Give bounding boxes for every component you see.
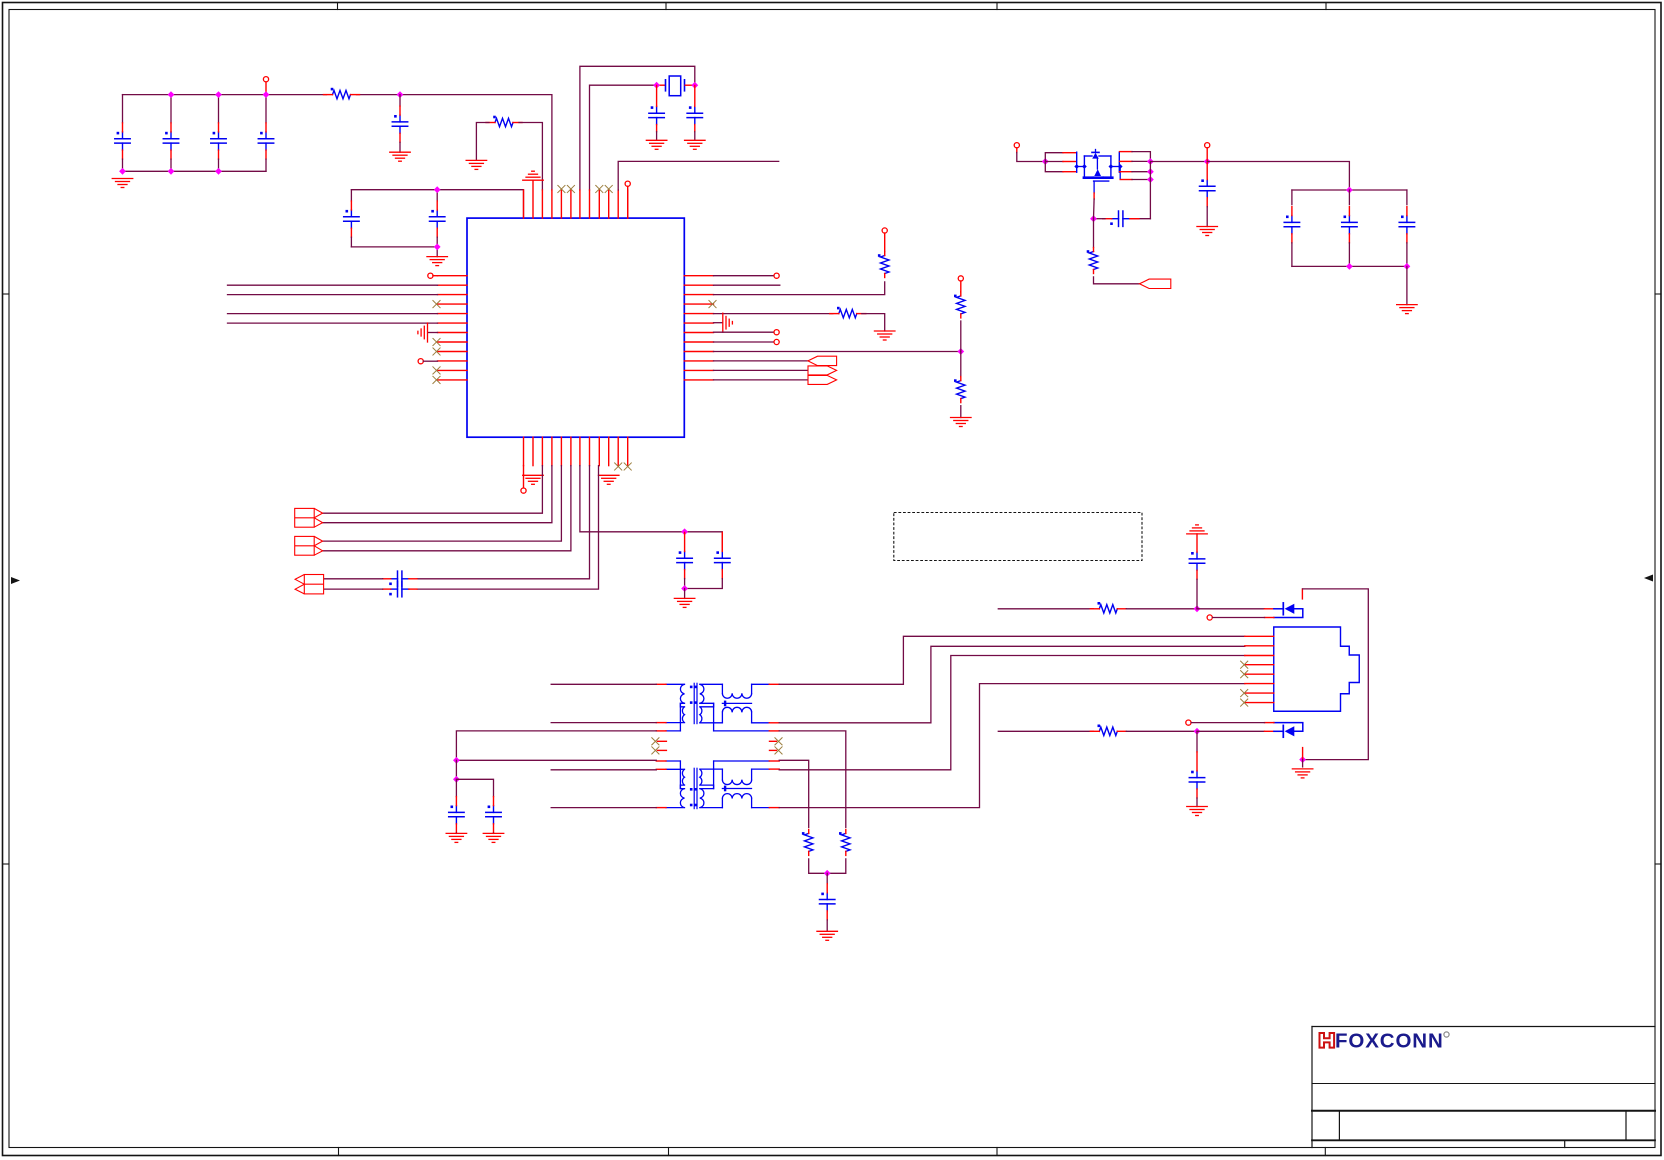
wire P11 to Q1 [1017, 153, 1046, 162]
junction T2 tap [453, 757, 460, 764]
no-connect X left pins 11-12 [433, 367, 440, 384]
capacitor C3 [211, 95, 226, 172]
wire R10 to diode D2 [1197, 730, 1265, 732]
connector J1 pins [1245, 636, 1274, 702]
junction tap node [824, 870, 831, 877]
no-connect J1 pins 4-5 [1241, 661, 1248, 678]
wire pin7-b to caps [580, 466, 685, 532]
transformer T2 [656, 761, 779, 809]
resistor R1 [324, 88, 360, 99]
wire loop bottom [351, 247, 437, 257]
wire bus left A [228, 284, 438, 286]
wire pin8-b row [417, 466, 589, 579]
no-connect X right pin4 [709, 301, 716, 308]
IC U1 bottom pins [524, 437, 628, 465]
ground GND3 [466, 160, 487, 169]
wire pin5-b to tag [323, 466, 562, 541]
capacitor C10 [677, 532, 692, 588]
IC U1 top pins [524, 181, 628, 218]
ground GND16 [483, 833, 504, 842]
wire r10 to port [714, 369, 809, 371]
wire T1-B out [779, 646, 1245, 723]
ground GND15 [446, 833, 467, 842]
wire r2 to R3 [714, 282, 885, 295]
resistor R7 [839, 829, 850, 855]
wire pin11 to net stub [618, 161, 779, 190]
dashed note box [894, 513, 1142, 561]
capacitor C2 [163, 95, 178, 172]
wire bus left D [228, 322, 438, 324]
ferrite bead FB1 left pair [1045, 152, 1076, 172]
IC U1 [467, 218, 684, 437]
capacitor C21 [1284, 190, 1299, 266]
junction dots bus [119, 91, 403, 175]
wire to GND14 [684, 589, 686, 599]
port tag PORT4 (dual right) [295, 508, 323, 527]
port tag PORT1 (left-pointing) [808, 356, 837, 365]
wire D2 node link [0, 0, 1, 1]
no-connect J1 pins 7-8 [1241, 690, 1248, 707]
no-connect X pins 5-6 top [558, 185, 575, 192]
wire Q1 gate down [1093, 193, 1096, 219]
ground GND20 [1197, 227, 1218, 236]
wire r7 to pin P8 [714, 339, 780, 344]
capacitor C17 chain [1187, 525, 1208, 609]
wire cap bank bottom bus [1292, 265, 1407, 267]
wire tag3 wires [324, 579, 383, 589]
ground GND19 [1187, 807, 1208, 816]
junction Q1 in [1042, 158, 1049, 165]
no-connect X pins 11-12 bottom [615, 463, 632, 470]
capacitor C4 [258, 95, 273, 172]
wire pin9-b row [417, 466, 598, 589]
port tag PORT7 [1140, 279, 1171, 288]
wire chassis rail [1303, 589, 1369, 760]
wire RXVDD row [998, 608, 1093, 610]
IC U1 right pins [684, 276, 713, 380]
resistor R5 pullup [954, 276, 965, 352]
resistor R4 [830, 307, 866, 318]
wire r0 to pin P6 [714, 273, 780, 278]
capacitor C8 [344, 190, 359, 247]
junction loop top [434, 186, 441, 193]
wire r9 to port [714, 360, 808, 362]
svg-text:FOXCONN: FOXCONN [1335, 1029, 1443, 1052]
capacitor C7 [687, 85, 702, 140]
wire rail to gate cap [1131, 218, 1150, 220]
junction cap pair top [681, 528, 688, 535]
port tag PORT5 (dual right) [295, 536, 323, 555]
wire T1-B input [551, 722, 656, 724]
pin stub above rail junction [1302, 748, 1304, 760]
capacitor C5 [392, 95, 407, 153]
ground GND9 below pin10-b [598, 475, 619, 484]
wire R9 to diode D1 [1197, 608, 1265, 610]
junction crystal right [691, 82, 698, 89]
wire T1-A input [551, 683, 656, 685]
wire r8 to divider [714, 351, 961, 353]
junction crystal left [653, 82, 660, 89]
ground GND13 [951, 418, 972, 427]
wire pin7 route [580, 66, 695, 190]
wire D1 node link [1301, 589, 1303, 599]
wire T1-A out [779, 636, 1245, 684]
capacitor C15 [456, 779, 501, 833]
title block frame [1312, 1027, 1655, 1148]
ground GND12 sideways right pin6 [714, 313, 733, 332]
diode D1 [1265, 603, 1303, 618]
capacitor C16 [820, 873, 835, 931]
ground GND17 [817, 931, 838, 940]
resistor R3 [878, 228, 889, 278]
transformer T1 [656, 683, 779, 731]
connector pin P10 + wire [1186, 720, 1265, 725]
wire R2 right to IC pin3 [519, 123, 542, 191]
wire T2-B out [779, 656, 1245, 770]
junction Vout node [1204, 158, 1211, 165]
connector pin P12 [1205, 143, 1210, 162]
capacitor C18 chain [1189, 731, 1204, 806]
capacitor C11 [685, 532, 730, 588]
no-connect T1 aux pins right [770, 738, 783, 754]
resistor R10 [1090, 725, 1126, 736]
ground GND14 [674, 598, 695, 607]
connector pin P2 above pin12 [625, 181, 630, 218]
ground GND6 [427, 257, 448, 266]
wire R4 to ground [862, 314, 885, 331]
ground GND1 [112, 179, 133, 188]
wire Q1 drain lead [1120, 179, 1150, 181]
crystal Y1 [657, 76, 693, 96]
transistor Q1 P-MOSFET [1074, 150, 1122, 194]
capacitor C14 [449, 779, 464, 833]
diode D2 [1265, 723, 1303, 738]
junction gate [1090, 215, 1097, 222]
wire T2-C out [779, 684, 1245, 808]
wire r1 stub [714, 284, 780, 286]
wire rail right [1150, 161, 1207, 163]
ground GND10 sideways left pin7 [418, 323, 438, 342]
wire bus left C [228, 313, 438, 315]
wire T1 tap right [779, 731, 846, 828]
connector pin P1 [263, 77, 268, 95]
wire pin6-b to tag [323, 466, 571, 551]
wire gate node [1094, 218, 1106, 220]
connector pin P4 left pin1 [428, 273, 438, 278]
resistor R9 [1090, 602, 1126, 613]
junction divider mid [957, 348, 964, 355]
junction R9 node [1194, 605, 1201, 612]
wire TXVDD row [998, 730, 1093, 732]
junction bank bottom 1 [1346, 263, 1353, 270]
capacitor C12 series [383, 571, 417, 586]
wire T2 tap left [456, 759, 656, 761]
ground GND2 [390, 152, 411, 161]
wire Vout to cap bank [1207, 162, 1349, 191]
connector J1 RJ45 body [1274, 627, 1360, 711]
wire bus after R1 [357, 95, 552, 190]
ferrite bead FB2 right pair [1119, 152, 1150, 173]
wire T2-C input [551, 807, 656, 809]
wire R10 to junction [1126, 730, 1197, 732]
no-connect X pins 9-10 top [596, 185, 613, 192]
junction loop bottom [434, 244, 441, 251]
junction rail 1 [1147, 158, 1154, 165]
wire caps link [685, 532, 723, 550]
capacitor C22 [1342, 190, 1357, 266]
ground GND21 [1397, 305, 1418, 314]
capacitor C20 [1200, 162, 1215, 227]
ground GND11 [874, 331, 895, 340]
wire R2 left to ground [476, 123, 489, 161]
wire r6 to pin P7 [714, 330, 780, 335]
no-connect X left pin4 [433, 301, 440, 308]
ground GND7 above pin2 (inverted) [523, 171, 544, 180]
ground GND8 below pin2-b [523, 475, 544, 484]
wire R9 to junction [1126, 608, 1197, 610]
port tag PORT2 (right-pointing) [808, 366, 837, 375]
no-connect X left pins 8-9 [433, 338, 440, 355]
wire to GND21 [1406, 266, 1408, 304]
resistor R8 [802, 829, 813, 855]
Foxconn logo [1320, 1029, 1450, 1052]
port tag PORT6 (dual left) [295, 575, 324, 594]
ground GND4 [646, 140, 667, 149]
junction cap pair bottom [681, 585, 688, 592]
capacitor C6 [649, 85, 664, 140]
junction C14 node [453, 776, 460, 783]
wire loop top [351, 190, 523, 218]
ground GND18 [1292, 769, 1313, 778]
wire T1 tap left [456, 731, 656, 760]
connector pin P5 left pin10 [418, 359, 437, 364]
capacitor C1 [115, 95, 130, 172]
capacitor C13 series [383, 581, 417, 596]
wire pin4-b to tag [323, 466, 552, 523]
wire T2-B input [551, 769, 656, 771]
no-connect T1 aux pins [652, 738, 667, 754]
wire output rail [1149, 162, 1151, 219]
junction rail 3 [1147, 176, 1154, 183]
node VCC bus top-left [123, 94, 327, 96]
junction R10 node [1194, 728, 1201, 735]
wire cap bank top bus [1292, 189, 1407, 191]
wire pin3-b to tag [323, 466, 543, 514]
resistor R6 pulldown [954, 352, 965, 418]
resistor R11 gate pulldown [1087, 219, 1140, 284]
connector pin P11 [1014, 143, 1019, 153]
capacitor C9 [430, 190, 445, 247]
junction bank top [1346, 187, 1353, 194]
wire R7/R8 join [809, 859, 846, 873]
junction rail 2 [1147, 168, 1154, 175]
wire pin8 route [590, 85, 657, 190]
connector pin P9 + wire [1207, 615, 1264, 620]
connector pin P3 below pin1-b [521, 466, 526, 494]
wire to GND18 [1302, 760, 1304, 767]
wire r4 to R4 [714, 313, 833, 315]
wire T2 tap right [779, 760, 809, 827]
resistor R2 [486, 116, 522, 127]
wire bus left B [228, 294, 438, 296]
capacitor C23 [1399, 190, 1414, 266]
capacitor C19 gate [1103, 211, 1139, 226]
wire to C14/C15 [455, 760, 457, 779]
wire bottom bus of C1-C4 [123, 170, 267, 172]
junction bank bottom 2 [1404, 263, 1411, 270]
junction rail gnd [1299, 756, 1306, 763]
IC U1 left pins [438, 276, 468, 380]
ground GND5 [685, 140, 706, 149]
port tag PORT3 (right-pointing) [808, 375, 837, 384]
wire r11 to port [714, 379, 809, 381]
